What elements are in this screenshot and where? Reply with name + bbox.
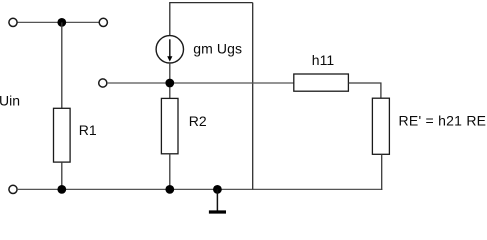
node bottom of R2 <box>165 185 174 194</box>
wire current-source bottom lead <box>169 63 171 98</box>
svg-text:h11: h11 <box>312 52 335 68</box>
resistor RE' <box>372 98 389 154</box>
svg-text:R1: R1 <box>79 122 97 138</box>
ground <box>216 189 218 211</box>
terminal bottom-left <box>9 185 17 193</box>
current source U1 arrow <box>169 39 171 57</box>
terminal middle-left <box>99 79 107 87</box>
wire R2 bottom lead <box>169 154 171 190</box>
wire right drop of source loop <box>252 3 254 190</box>
wire h11 to RE' corner <box>348 83 381 98</box>
resistor R2 <box>161 98 178 153</box>
svg-text:Uin: Uin <box>0 93 20 109</box>
wire bottom rail <box>17 188 382 190</box>
current source U1 circle <box>156 36 183 63</box>
wire top-left horizontal <box>17 21 99 23</box>
wire current-source top lead <box>169 3 171 36</box>
svg-text:RE' = h21 RE: RE' = h21 RE <box>399 113 487 129</box>
svg-text:gm Ugs: gm Ugs <box>193 41 242 57</box>
wire middle rail <box>107 82 294 84</box>
terminal input top-left <box>9 18 17 26</box>
resistor h11 <box>294 74 349 91</box>
resistor R1 <box>54 108 71 162</box>
wire R1 bottom lead <box>61 162 63 189</box>
node ground junction <box>213 185 222 194</box>
node gate junction <box>165 79 174 88</box>
svg-text:R2: R2 <box>189 113 207 129</box>
terminal top-right of input pair <box>99 18 107 26</box>
node junction top of R1 <box>57 18 66 27</box>
wire RE' bottom lead <box>381 154 383 190</box>
wire top rail of source loop <box>169 2 253 4</box>
wire R1 top lead <box>61 22 63 108</box>
node bottom of R1 <box>57 185 66 194</box>
